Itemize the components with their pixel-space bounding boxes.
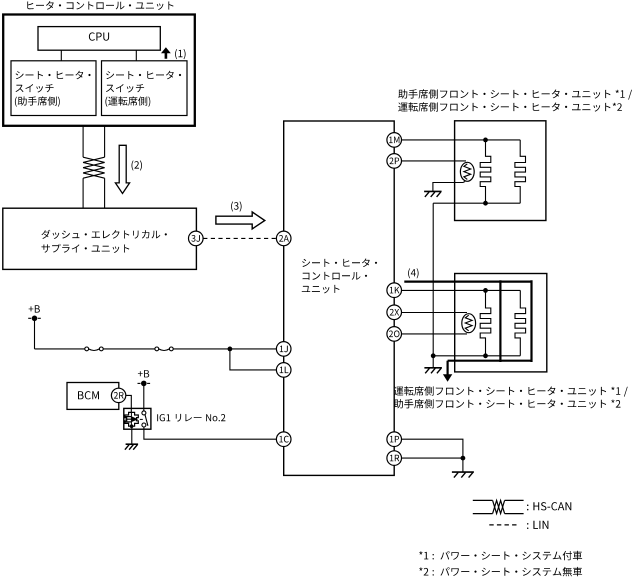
- wire to ground (1P/1R): [462, 458, 464, 472]
- pin 2A: [276, 231, 291, 246]
- wire +B down: [34, 319, 36, 349]
- pin 1M: [387, 133, 402, 148]
- seat heater switch (passenger) label: [15, 71, 91, 107]
- thick wire (4) right: [530, 280, 532, 362]
- node heater2 top: [483, 288, 488, 293]
- heater unit 1 box: [455, 121, 546, 221]
- +B node (battery): [28, 305, 41, 321]
- heater element 2 right: [515, 290, 526, 355]
- wire coil to ground: [131, 426, 133, 444]
- pin 1J: [276, 342, 291, 357]
- wire 1R to ground: [402, 457, 463, 459]
- heater unit 2 box: [455, 274, 547, 372]
- wire relay switch to 1C: [144, 427, 277, 439]
- thick wire (4) arrow down: [443, 361, 452, 382]
- wire CPU to passenger switch: [60, 50, 62, 61]
- wire CPU to driver switch: [135, 50, 137, 61]
- seat heater switch (driver) box: [102, 61, 188, 116]
- legend LIN symbol: [489, 524, 517, 526]
- wire thermistor 1 to ground: [433, 182, 465, 192]
- wire heater1 bottom to trunk: [432, 203, 434, 356]
- wire 3J to 2A (LIN, dashed): [203, 237, 276, 239]
- pin 1L: [276, 363, 291, 378]
- wire junction to 1J: [230, 348, 277, 350]
- junction node +B branch: [228, 347, 233, 352]
- fuse 1: [85, 347, 103, 351]
- fuse 2: [155, 347, 173, 351]
- pin 3J: [189, 231, 204, 246]
- thick wire (4) top: [404, 281, 531, 283]
- node heater2 bottom: [483, 353, 488, 358]
- wire heater2 bottom: [433, 355, 520, 357]
- thermistor 1: [460, 162, 474, 181]
- node heater1 top: [483, 138, 488, 143]
- pin 1K: [387, 283, 402, 298]
- heater element 2 left: [480, 290, 491, 355]
- thick wire (4) bottom: [448, 360, 532, 362]
- CPU label: [89, 32, 109, 40]
- BCM box: [67, 383, 119, 410]
- heater control unit label: [27, 1, 173, 10]
- relay switch: [140, 411, 148, 427]
- IG1 relay No.2 box: [124, 408, 151, 429]
- wire 2P to thermistor 1: [402, 160, 467, 162]
- thick wire (4) divider: [499, 280, 501, 362]
- label (4): [408, 268, 419, 278]
- pin 1P: [387, 432, 402, 447]
- seat heater control unit label: [302, 259, 377, 294]
- arrow (2): [115, 145, 142, 193]
- wire heater2 top to right element: [486, 289, 521, 291]
- BCM label: [78, 391, 99, 399]
- pin 1R: [387, 451, 402, 466]
- heater unit 1 labels: [398, 89, 632, 111]
- wire 1M to heater elements: [402, 139, 486, 141]
- heater control unit box: [3, 15, 195, 126]
- pin 2R: [111, 388, 125, 402]
- legend HS-CAN symbol: [473, 500, 524, 513]
- heater element 1 right: [515, 140, 526, 203]
- dash electrical supply unit label: [41, 230, 166, 253]
- ground (relay coil): [125, 444, 138, 450]
- seat heater control unit box: [284, 121, 395, 475]
- wire +B to relay switch: [143, 384, 145, 411]
- legend LIN label: [527, 521, 548, 529]
- seat heater switch (passenger) box: [11, 61, 96, 116]
- node trunk junction: [431, 353, 436, 358]
- relay coil: [125, 412, 138, 428]
- thermistor 2: [462, 314, 476, 333]
- pin 2O: [387, 327, 402, 342]
- arrow (1): [161, 47, 186, 59]
- wire 1K to heater elements: [402, 289, 486, 291]
- seat heater switch (driver) label: [105, 71, 181, 107]
- wire +B to fuse 1: [35, 348, 85, 350]
- wire 2X to thermistor 2: [402, 312, 468, 314]
- node heater1 bottom: [483, 201, 488, 206]
- wire junction to 1L: [230, 349, 277, 370]
- footnote *2: [419, 567, 582, 576]
- ground (heater unit 1): [424, 191, 442, 197]
- dash electrical supply unit box: [3, 208, 197, 269]
- footnote *1: [419, 551, 582, 560]
- twisted pair wire (HS-CAN): [83, 126, 105, 208]
- heater element 1 left: [480, 140, 491, 203]
- wire 2R to relay coil: [126, 395, 132, 412]
- +B node (relay): [138, 370, 151, 386]
- IG1 relay label: [157, 414, 225, 422]
- legend HS-CAN label: [527, 502, 571, 510]
- heater unit 2 labels: [394, 386, 628, 408]
- wire heater1 top to right element: [486, 139, 521, 141]
- node 1P/1R ground: [461, 456, 466, 461]
- wire heater1 bottom: [433, 202, 520, 204]
- wire fuse1 to fuse2: [103, 348, 155, 350]
- ground (1P/1R): [452, 472, 474, 478]
- pin 1C: [276, 432, 291, 447]
- wire 2C to thermistor 2: [402, 333, 468, 335]
- wire trunk to ground: [432, 356, 434, 368]
- pin 2X: [387, 305, 402, 320]
- arrow (3): [216, 201, 265, 229]
- wire 1P to ground: [402, 439, 463, 458]
- ground (heater unit 2): [424, 368, 442, 374]
- wire fuse2 to junction: [173, 348, 230, 350]
- CPU box: [38, 27, 160, 51]
- pin 2P: [387, 154, 402, 169]
